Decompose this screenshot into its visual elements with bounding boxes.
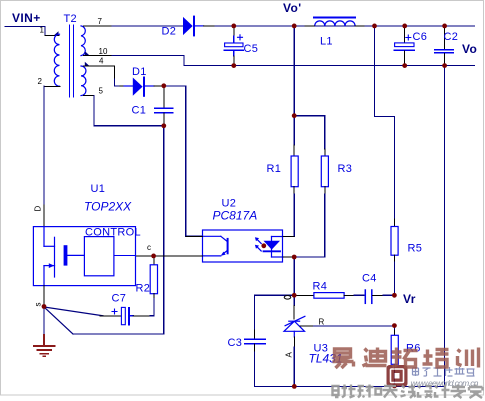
svg-text:R: R [319, 318, 325, 327]
wire LED anode lead [283, 236, 294, 238]
U1 MOSFET [44, 227, 84, 286]
node Vr [392, 293, 397, 298]
node C1 bottom [161, 123, 166, 128]
wire pin4 to D1 anode [115, 79, 120, 86]
pin letter O [284, 296, 291, 300]
svg-text:C7: C7 [112, 293, 127, 305]
node R4 left [292, 293, 297, 298]
svg-text:CONTROL: CONTROL [85, 227, 141, 239]
inductor L1 [314, 18, 355, 26]
wire pin4 lead [84, 66, 115, 79]
培 [423, 350, 449, 368]
TL431 U3 [293, 295, 295, 305]
svg-text:PC817A: PC817A [213, 209, 258, 223]
capacitor C6 (polarized) [395, 26, 414, 66]
svg-text:U1: U1 [91, 183, 106, 195]
wire C3 bottom to bottom rail [254, 352, 294, 386]
resistor R3 [321, 156, 328, 187]
wire pin5 to C1 bottom [94, 96, 164, 126]
node C5 bottom [231, 63, 236, 68]
wire opto collector entry (black lead) [186, 235, 203, 237]
专 [451, 385, 467, 399]
svg-text:C6: C6 [413, 31, 428, 43]
node anode/bottom rail [292, 384, 297, 389]
wire top rail (Vo' rail) [215, 25, 474, 27]
wire R1 top lead [293, 116, 295, 145]
U1 CONTROL box [84, 237, 114, 276]
svg-text:TOP2XX: TOP2XX [84, 200, 132, 214]
和 [366, 385, 382, 398]
svg-text:Vr: Vr [403, 292, 416, 306]
node C6 top [402, 24, 407, 29]
node Vo' [292, 24, 297, 29]
node C5 top [231, 24, 236, 29]
node LED anode dot [261, 243, 266, 248]
wire pin7 to D2 [112, 25, 183, 27]
svg-text:5: 5 [99, 87, 104, 96]
opto U2 LED [264, 237, 284, 258]
wire pin2 lead [44, 85, 60, 87]
diode D1 [124, 78, 154, 96]
wire Vo' node down to R1/R3 [293, 26, 295, 116]
diode D2 [183, 17, 204, 36]
wire C7 to R2 [133, 315, 150, 317]
svg-text:c: c [147, 243, 151, 252]
svg-text:1: 1 [40, 26, 45, 35]
svg-text:T2: T2 [64, 13, 77, 25]
node C2 top [442, 24, 447, 29]
capacitor C4 [365, 290, 372, 303]
wire pin10 to output return [112, 56, 234, 66]
node D1 cathode [161, 83, 166, 88]
svg-text:Vo': Vo' [283, 1, 302, 15]
wire D1 cathode to node [154, 85, 164, 87]
watermark logo title (drawn hanzi) [413, 367, 475, 376]
svg-text:VIN+: VIN+ [12, 11, 41, 25]
wire pin10 lead [84, 55, 113, 57]
watermark logo box [387, 365, 408, 387]
易 [333, 349, 354, 368]
resistor R4 [314, 293, 344, 299]
svg-text:Vo: Vo [462, 42, 477, 56]
svg-text:C4: C4 [362, 273, 377, 285]
svg-text:2: 2 [38, 77, 43, 86]
opto U2 LED arrows [255, 237, 261, 251]
wire pin7 lead [84, 25, 113, 27]
wire pin5 lead [84, 95, 95, 97]
svg-text:R5: R5 [408, 243, 423, 255]
wire VIN+ input [5, 27, 45, 36]
wire U1 control out to opto emitter [136, 255, 203, 257]
node c pin [151, 254, 156, 259]
capacitor C7 (polarized) [112, 307, 133, 324]
resistor R1 [291, 156, 298, 187]
node ref/R6 [392, 323, 397, 328]
svg-text:A: A [285, 352, 294, 358]
迪 [363, 348, 387, 367]
svg-text:s: s [34, 303, 43, 307]
resistor R2 [153, 256, 155, 265]
svg-text:D1: D1 [132, 66, 147, 78]
svg-text:C1: C1 [132, 105, 147, 117]
svg-text:R3: R3 [338, 163, 353, 175]
wire R4 left lead [294, 294, 314, 296]
wire pin2 to U1 drain [43, 86, 45, 205]
capacitor C1 [155, 86, 173, 126]
watermark big red text (drawn hanzi) [333, 348, 479, 369]
wire R5 branch from top rail [375, 26, 395, 219]
watermark gray slogan (drawn hanzi) [333, 385, 483, 399]
capacitor C3 [253, 295, 255, 330]
家 [469, 385, 483, 399]
transformer T2 pin10 polarity mark [85, 51, 89, 55]
wire R5 bottom lead to Vr [393, 255, 395, 262]
node L1 out [372, 24, 377, 29]
capacitor C5 (polarized) [225, 26, 243, 66]
svg-text:C3: C3 [228, 337, 243, 349]
计 [435, 385, 450, 399]
wire bottom output rail [234, 65, 474, 67]
wire D1 node to opto collector drop [164, 86, 203, 236]
wire cathode node down to R4 node [293, 257, 295, 295]
node C6 bottom [402, 63, 407, 68]
node R6 bottom [392, 384, 397, 389]
wire D2 cathode lead [204, 25, 214, 27]
wire R4 node line from C3 [254, 294, 294, 296]
svg-text:D: D [34, 206, 43, 212]
wire S to C7 diagonal [44, 307, 103, 316]
node LED cathode [292, 255, 297, 260]
transformer T2 pin4 polarity mark [85, 62, 89, 66]
svg-text:R1: R1 [267, 163, 282, 175]
svg-text:R4: R4 [313, 281, 328, 293]
wire R3 bottom lead [324, 187, 326, 194]
node S pin [42, 304, 47, 309]
U1 box [33, 227, 135, 286]
opto U2 phototransistor [203, 236, 228, 256]
wire L1 leads [305, 25, 315, 27]
wire U1 source to S node [43, 286, 45, 305]
频 [349, 385, 365, 398]
svg-text:7: 7 [98, 17, 103, 26]
transformer T2 primary winding [54, 34, 59, 86]
svg-text:10: 10 [99, 47, 108, 56]
wire pin1 lead [45, 35, 59, 37]
拓 [392, 348, 418, 368]
transformer T2 secondary winding 2 (pins 4-5) [81, 66, 86, 96]
wire R1 bottom lead [293, 187, 295, 194]
wire TL431 anode down [293, 337, 295, 347]
transformer T2 primary polarity mark [54, 31, 59, 35]
wire TL431 ref line [300, 325, 314, 327]
线 [401, 385, 416, 399]
node R1/R3 top [292, 113, 297, 118]
node C2 bottom [442, 63, 447, 68]
svg-text:C2: C2 [444, 31, 459, 43]
opto U2 box [203, 230, 283, 262]
wire R4 right lead [344, 294, 354, 296]
wire node to R3 top [294, 116, 325, 149]
transformer T2 secondary winding 1 (pins 7-10) [81, 26, 85, 56]
transformer T2 core [69, 25, 71, 97]
wire right branch down from C2 to bottom rail [294, 66, 445, 387]
resistor R5 [391, 227, 398, 256]
wire R6 branch [393, 326, 395, 330]
射 [333, 385, 348, 398]
wire LED cathode line to R3 [283, 256, 294, 258]
训 [458, 348, 479, 368]
capacitor C2 [435, 26, 454, 66]
svg-text:L1: L1 [320, 36, 333, 48]
resistor R6 [391, 335, 398, 364]
ground [34, 308, 55, 356]
svg-text:4: 4 [99, 57, 104, 66]
天 [383, 386, 398, 398]
设 [418, 386, 433, 398]
svg-text:C5: C5 [244, 43, 259, 55]
svg-text:R2: R2 [136, 283, 151, 295]
svg-text:D2: D2 [162, 26, 177, 38]
wire CONTROL to c pin [114, 254, 136, 256]
wire C1 bottom node down to S return [73, 126, 164, 334]
